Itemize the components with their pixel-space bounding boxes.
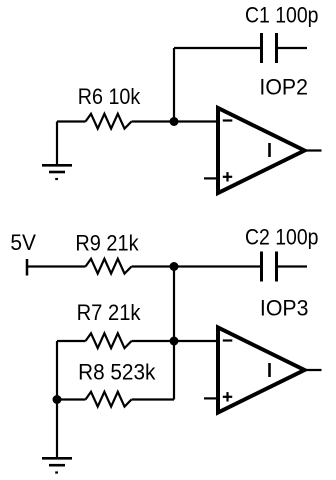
svg-text:C2 100p: C2 100p — [245, 225, 319, 250]
capacitor C1 — [262, 33, 277, 63]
node A junction dot — [170, 117, 179, 126]
op-amp IOP2 inverting pin minus sign — [223, 119, 233, 121]
wire from R7 to node C — [132, 340, 175, 342]
wire from R6 to node A — [132, 120, 175, 122]
svg-text:C1 100p: C1 100p — [245, 2, 319, 27]
ground (bottom, at node D) — [42, 458, 72, 472]
svg-text:R9 21k: R9 21k — [75, 230, 139, 255]
svg-text:5V: 5V — [10, 230, 36, 255]
wire from C1 right plate — [278, 47, 307, 49]
svg-text:R6 10k: R6 10k — [78, 84, 141, 109]
op-amp IOP3 internal current label I — [268, 363, 271, 377]
wire from node B to C2 left plate — [174, 265, 260, 267]
svg-text:R7 21k: R7 21k — [77, 300, 142, 325]
wire from node A to IOP2 inverting input — [174, 120, 217, 122]
wire from C2 right plate — [278, 265, 307, 267]
op-amp IOP3 non-inverting pin plus sign — [223, 392, 232, 401]
wire from left rail to R7 — [57, 340, 86, 342]
node C junction dot — [170, 337, 179, 346]
wire from 5V terminal to R9 — [27, 265, 86, 267]
ground (top, at R6 left) — [42, 122, 72, 180]
capacitor C2 — [262, 252, 277, 282]
wire IOP2 output — [305, 149, 322, 151]
resistor R8 — [86, 392, 132, 407]
wire from node C to IOP3 inverting input — [174, 340, 217, 342]
node D junction dot — [53, 395, 62, 404]
svg-text:IOP2: IOP2 — [259, 75, 308, 100]
op-amp U2 IOP3 triangle — [218, 328, 305, 413]
op-amp IOP2 non-inverting pin plus sign — [223, 172, 232, 181]
op-amp IOP2 internal current label I — [268, 143, 271, 157]
op-amp U1 IOP2 triangle — [218, 108, 305, 193]
wire from node D down to ground — [56, 400, 58, 458]
svg-text:IOP3: IOP3 — [260, 295, 309, 320]
wire from node A to C1 left plate — [174, 47, 260, 49]
wire stub IOP3 non-inverting input — [204, 397, 217, 399]
wire vertical node B down through node C to R8 — [173, 267, 175, 400]
wire IOP3 output — [305, 369, 322, 371]
resistor R7 — [86, 333, 132, 348]
resistor R6 — [86, 114, 132, 129]
node B junction dot — [170, 262, 179, 271]
wire stub IOP2 non-inverting input — [204, 177, 217, 179]
wire from node D to R8 — [57, 398, 86, 400]
wire left rail from R7 down to node D — [56, 341, 58, 400]
resistor R9 — [86, 259, 132, 274]
op-amp IOP3 inverting pin minus sign — [223, 339, 233, 341]
wire from ground to R6 — [57, 120, 86, 122]
svg-text:R8 523k: R8 523k — [78, 359, 156, 384]
wire from R9 to node B — [132, 265, 175, 267]
wire from R8 right to vertical rail — [132, 398, 175, 400]
wire vertical from C1 down to node A — [173, 48, 175, 122]
5V terminal tick — [26, 259, 29, 276]
